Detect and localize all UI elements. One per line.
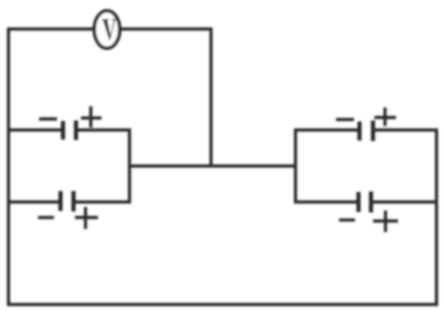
polarity label plus for B1 <box>81 106 102 127</box>
wire voltmeter drop (vertical to middle node) <box>209 28 212 168</box>
polarity label minus for B1 <box>39 117 57 120</box>
voltmeter V (meter body) <box>94 11 119 48</box>
wire bottom (outer loop bottom) <box>7 303 438 306</box>
wire cell B3 left lead <box>294 128 358 131</box>
polarity label plus for B4 <box>373 211 398 233</box>
battery cell B1 (left top) positive plate <box>74 121 78 141</box>
battery cell B2 (left bottom) negative plate <box>58 191 62 211</box>
wire middle (left block to right block, node B) <box>128 164 297 167</box>
wire cell B2 left lead <box>7 200 59 203</box>
wire cell B1 left lead <box>7 128 61 131</box>
polarity label minus for B4 <box>339 218 355 221</box>
polarity label minus for B2 <box>38 216 54 219</box>
wire left block right vertical (joins B1 and B2) <box>128 129 131 204</box>
battery cell B1 (left top) negative plate <box>61 121 65 140</box>
battery cell B2 (left bottom) positive plate <box>71 191 75 212</box>
polarity label plus for B2 <box>75 207 98 229</box>
wire right block left vertical (joins B3 and B4) <box>294 129 297 204</box>
wire left vertical (outer loop left side) <box>7 28 10 307</box>
wire cell B3 right lead <box>375 128 438 131</box>
wire top-left segment (node A to voltmeter) <box>7 27 94 30</box>
wire cell B1 right lead <box>78 128 131 131</box>
polarity label plus for B3 <box>375 108 397 127</box>
polarity label minus for B3 <box>336 118 354 121</box>
battery cell B3 (right top) negative plate <box>357 122 361 141</box>
wire cell B2 right lead <box>76 200 132 203</box>
voltmeter V (meter letter) <box>102 19 116 40</box>
wire cell B4 left lead <box>294 200 357 203</box>
wire top-right segment (voltmeter to drop corner) <box>120 27 213 30</box>
battery cell B4 (right bottom) positive plate <box>369 192 373 213</box>
battery cell B4 (right bottom) negative plate <box>356 192 360 212</box>
battery cell B3 (right top) positive plate <box>371 121 375 142</box>
wire right vertical (outer loop right side) <box>435 129 438 307</box>
wire cell B4 right lead <box>373 200 438 203</box>
